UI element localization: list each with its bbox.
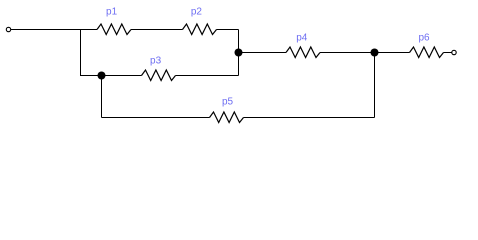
wire row 3 left to p5	[102, 117, 210, 119]
wire p3 to node B vertical	[176, 75, 239, 77]
svg-text:p3: p3	[150, 56, 162, 67]
junction node C	[98, 72, 106, 80]
wire T1 to node A	[11, 29, 81, 31]
junction node B	[235, 49, 243, 57]
wire node A down to row 2	[80, 30, 82, 76]
terminal T1 (left input)	[6, 27, 10, 31]
svg-text:p6: p6	[418, 32, 430, 43]
wire node C down to row 3	[101, 76, 103, 118]
wire p5 to node D vertical	[244, 117, 375, 119]
resistor p2	[183, 24, 217, 35]
wire p4 to node D	[320, 52, 375, 54]
wire node B vertical	[238, 30, 240, 76]
resistor p6	[410, 47, 444, 58]
wire node A to p1	[80, 29, 97, 31]
svg-text:p4: p4	[296, 32, 308, 43]
terminal T2 (right output)	[452, 50, 456, 54]
wire node D down to row 3	[374, 53, 376, 118]
svg-text:p1: p1	[106, 7, 118, 18]
resistor p4	[286, 47, 320, 58]
svg-text:p2: p2	[191, 7, 203, 18]
wire node D to p6	[375, 52, 410, 54]
wire row 2 from node A corner to p3	[80, 75, 142, 77]
resistor p3	[142, 70, 176, 81]
wire p2 to node B	[217, 29, 239, 31]
wire p1 to p2	[131, 29, 183, 31]
junction node D	[371, 49, 379, 57]
resistor p1	[97, 24, 131, 35]
resistor p5	[210, 112, 244, 123]
svg-text:p5: p5	[222, 97, 234, 108]
wire p6 to terminal T2	[444, 52, 452, 54]
wire node B to p4	[239, 52, 287, 54]
